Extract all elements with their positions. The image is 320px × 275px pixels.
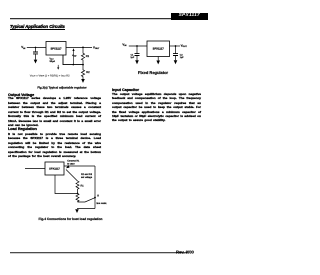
node output junction [82,47,84,49]
regulator U2 box [147,41,170,57]
node load junction [94,197,96,199]
ground lower [75,209,79,213]
resistor R1 lower [76,181,79,194]
regulator U1 box [46,42,66,56]
node input cap junction [136,45,138,47]
ground input cap [35,54,37,60]
header part number tab [171,13,209,20]
node ADJ junction [82,64,84,66]
svg-text:VREF: VREF [72,54,77,57]
ground pin regulator [157,57,159,61]
svg-text:1µF: 1µF [180,56,184,59]
svg-text:VIN: VIN [21,45,26,50]
wire ADJ pin lower [55,175,78,194]
resistor R1 [81,47,84,64]
svg-text:Fig.3(a) Typical adjustable re: Fig.3(a) Typical adjustable regulator [37,86,87,90]
resistor R2 [81,65,84,79]
wire output [66,46,92,48]
svg-text:SPX1117: SPX1117 [49,168,60,171]
annotation VREF arrow [73,51,75,65]
svg-text:Rev. 9/00: Rev. 9/00 [176,250,195,255]
left column heading 2 [8,127,37,131]
ground input cap [136,56,138,61]
svg-text:50µA: 50µA [50,60,56,63]
svg-text:VIN: VIN [122,42,127,47]
left column paragraph 2 [8,132,101,159]
wire output [64,165,95,167]
node ADJ junction lower [77,193,79,195]
node dot on ADJ wire [73,64,75,66]
node input cap junction [35,47,37,49]
svg-text:VOUT: VOUT [181,43,188,48]
section heading [10,24,65,30]
regulator U3 box [45,162,64,175]
svg-text:R1: R1 [81,185,85,188]
svg-text:Connect R1: Connect R1 [67,159,80,162]
svg-text:R2 and R3: R2 and R3 [81,173,93,176]
wire R1 to case diagonal [66,170,78,182]
wire load branch [94,166,96,209]
svg-text:R2: R2 [86,71,90,74]
resistor R2 lower [76,194,79,203]
wire R2 to load diagonal [78,198,96,202]
header rule [10,18,172,19]
ground output cap [175,56,177,61]
wire ground return [77,208,95,210]
capacitor C2 [175,46,177,54]
ground divider [81,79,85,83]
wire ADJ pin [63,55,83,65]
capacitor C1 input [35,47,37,52]
footer rule [10,251,187,254]
node output cap junction [175,45,177,47]
svg-text:Fixed Regulator: Fixed Regulator [138,70,169,75]
current arrow IADJ [57,65,59,68]
right column paragraph [112,92,201,123]
svg-text:Fig.4 Connections for best loa: Fig.4 Connections for best load regulati… [39,217,103,221]
svg-text:R1: R1 [86,55,90,58]
svg-text:set voltage: set voltage [81,176,93,179]
wire input [27,46,46,48]
svg-text:SPX1117: SPX1117 [153,47,165,50]
svg-text:1µF: 1µF [130,56,134,59]
svg-text:R: R [97,195,99,198]
right column heading [112,88,139,92]
svg-text:line resist.: line resist. [97,202,108,205]
capacitor C1 [136,46,138,54]
wire input [129,45,147,47]
svg-text:VOUT = VREF (1 + R2/R1) + IADJ: VOUT = VREF (1 + R2/R1) + IADJ R2 [30,74,70,77]
wire input [25,168,45,170]
left column paragraph 1 [8,96,101,127]
wire output [170,45,181,47]
svg-text:VOUT: VOUT [93,45,100,50]
left column heading 1 [8,93,34,97]
annotation arrow R1 [66,165,70,168]
svg-text:SPX1117: SPX1117 [50,47,62,50]
